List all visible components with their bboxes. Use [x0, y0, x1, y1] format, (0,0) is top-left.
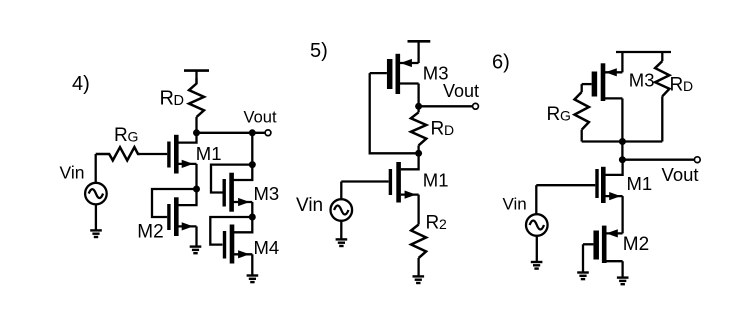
svg-text:M1: M1 [423, 170, 449, 191]
svg-text:R: R [160, 88, 174, 110]
svg-text:D: D [444, 122, 454, 138]
wire rail to M3 source (circuit 6) [621, 52, 623, 72]
node source of M1 / drain of M2 (circuit 4) [193, 186, 200, 193]
wire M2 gate to ground (circuit 6) [582, 244, 584, 271]
label R2 (circuit 5) [426, 213, 448, 234]
resistor RG (circuit 6) [575, 84, 589, 141]
ground below M2 gate (circuit 6) [577, 273, 589, 280]
VDD rail (circuit 4) [184, 71, 209, 79]
VDD rail (circuit 5) [408, 41, 431, 63]
svg-text:M2: M2 [137, 221, 163, 242]
ground below M2 source (circuit 6) [617, 278, 629, 285]
resistor RD (circuit 6) [655, 52, 669, 142]
node Vout (circuit 5) [415, 103, 422, 110]
svg-text:Vout: Vout [443, 81, 479, 101]
transistor M3 (circuit 5) [370, 54, 419, 107]
label M1 (circuit 5) [423, 170, 449, 191]
svg-text:R: R [547, 104, 561, 125]
ground below Vin (circuit 6) [531, 262, 543, 269]
wire gate-drain diode connection M3 (circuit 4) [211, 165, 252, 193]
AC source Vin (circuit 4) [85, 183, 107, 205]
label M3 (circuit 4) [254, 183, 280, 204]
label M2 (circuit 6) [623, 234, 649, 255]
transistor M3 (circuit 4) [224, 165, 252, 217]
wire Vin source to ground (circuit 4) [95, 204, 97, 229]
wire gate-drain diode connection M2 (circuit 4) [152, 189, 197, 217]
svg-text:Vout: Vout [662, 164, 699, 185]
label M2 (circuit 4) [137, 221, 163, 242]
svg-text:D: D [174, 93, 184, 109]
svg-text:R: R [114, 125, 128, 146]
label Vin (circuit 6) [503, 195, 527, 214]
ground below M4 (circuit 4) [247, 276, 259, 283]
node drain of M1 (circuit 4) [193, 129, 200, 136]
node source of M3 / drain of M4 (circuit 4) [249, 214, 256, 221]
svg-text:M2: M2 [623, 234, 649, 255]
svg-text:R: R [670, 75, 684, 96]
label 4) [72, 73, 90, 95]
wire Vin to gate (circuit 5) [340, 182, 342, 200]
wire Vout node to M3 drain (circuit 4) [251, 133, 253, 165]
node M1 drain (circuit 5) [415, 150, 422, 157]
wire Vin to gate (circuit 6) [535, 185, 537, 214]
wire node row RG to RD (circuit 6) [582, 140, 663, 142]
wire gate-drain diode connection M4 (circuit 4) [210, 217, 252, 245]
label RD (circuit 5) [431, 119, 455, 140]
resistor RG (circuit 4) [96, 147, 140, 160]
svg-text:M3: M3 [629, 70, 655, 91]
label Vout (circuit 5) [443, 81, 479, 101]
wire RG to Vin source (circuit 4) [95, 154, 97, 183]
node Vout branch (circuit 4) [249, 129, 256, 136]
label Vin (circuit 5) [296, 195, 323, 216]
svg-text:Vin: Vin [503, 195, 527, 214]
svg-text:M3: M3 [254, 183, 280, 204]
wire drain node to Vout terminal (circuit 4) [197, 132, 266, 134]
label 6) [492, 52, 510, 74]
svg-text:R: R [431, 119, 445, 140]
svg-text:M1: M1 [196, 143, 222, 164]
AC source Vin (circuit 5) [331, 199, 353, 221]
label M3 (circuit 5) [423, 63, 449, 84]
transistor M1 (circuit 5) [341, 153, 418, 224]
label Vout (circuit 4) [244, 109, 277, 127]
AC source Vin (circuit 6) [526, 214, 548, 236]
svg-text:4): 4) [72, 73, 90, 95]
svg-text:M4: M4 [254, 237, 280, 258]
node gate-drain of M3 (circuit 4) [249, 161, 256, 168]
ground below Vin (circuit 4) [90, 230, 102, 237]
label M3 (circuit 6) [629, 70, 655, 91]
svg-text:Vin: Vin [296, 195, 323, 216]
wire Vout (circuit 5) [419, 105, 473, 107]
node M3 drain (circuit 6) [619, 138, 626, 145]
transistor M3 (circuit 6) [582, 63, 623, 141]
resistor R2 (circuit 5) [411, 225, 426, 276]
ground below Vin (circuit 5) [336, 239, 348, 246]
ground below M2 (circuit 4) [190, 247, 202, 254]
label RG (circuit 6) [547, 104, 571, 125]
wire Vin source to ground (circuit 6) [536, 236, 538, 261]
svg-text:Vin: Vin [60, 163, 85, 183]
resistor RD (circuit 5) [411, 106, 426, 153]
label RD (circuit 4) [160, 88, 184, 110]
transistor M2 (circuit 4) [169, 189, 197, 246]
VDD rail (circuit 6) [616, 51, 671, 53]
svg-text:R: R [426, 213, 440, 234]
svg-text:G: G [128, 129, 139, 145]
label M1 (circuit 6) [627, 173, 653, 194]
svg-text:D: D [683, 78, 693, 94]
svg-text:G: G [560, 108, 571, 124]
Vout terminal (circuit 6) [694, 157, 700, 163]
wire M3 gate feedback to drain node (circuit 5) [370, 73, 419, 153]
wire Vin source to ground (circuit 5) [340, 221, 342, 239]
svg-text:2: 2 [439, 216, 447, 232]
resistor RD (circuit 4) [189, 79, 204, 134]
svg-text:6): 6) [492, 52, 510, 74]
label Vout (circuit 6) [662, 164, 699, 185]
label M4 (circuit 4) [254, 237, 280, 258]
node M1 drain / Vout (circuit 6) [619, 156, 626, 163]
wire node to M1 drain node (circuit 6) [621, 142, 623, 160]
ground below R2 (circuit 5) [413, 276, 425, 283]
transistor M1 (circuit 6) [536, 160, 622, 234]
label 5) [310, 40, 328, 62]
label RG (circuit 4) [114, 125, 138, 146]
transistor M2 (circuit 6) [583, 226, 623, 277]
svg-text:5): 5) [310, 40, 328, 62]
Vout terminal (circuit 4) [265, 130, 271, 136]
wire Vout (circuit 6) [622, 159, 694, 161]
label Vin (circuit 4) [60, 163, 85, 183]
svg-text:M1: M1 [627, 173, 653, 194]
transistor M4 (circuit 4) [225, 217, 253, 275]
Vout terminal (circuit 5) [473, 103, 479, 109]
label RD (circuit 6) [670, 75, 694, 96]
svg-text:Vout: Vout [244, 109, 277, 127]
transistor M1 (circuit 4) [139, 133, 197, 189]
label M1 (circuit 4) [196, 143, 222, 164]
